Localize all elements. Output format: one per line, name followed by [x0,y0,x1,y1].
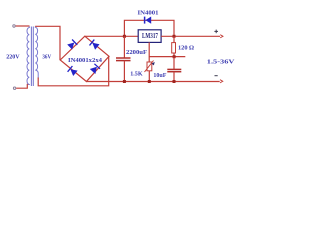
junction node bus C1 riser [123,35,126,38]
svg-text:1.5-36V: 1.5-36V [207,59,235,66]
svg-text:36V: 36V [42,54,51,61]
bridge diode D3 bottom-left [68,66,78,76]
junction node bus pot [148,80,151,83]
capacitor C2 10uF [167,57,181,82]
wire secondary bottom AC to bridge right vertex [38,56,109,86]
svg-text:10uF: 10uF [153,72,166,79]
label plus [214,30,218,34]
wire ADJ pin [148,42,150,62]
svg-text:1.5K: 1.5K [130,70,143,77]
label minus [215,75,218,77]
bridge diode D2 top-right [90,40,100,50]
wire bypass loop [124,20,174,36]
svg-text:2200uF: 2200uF [126,49,147,56]
junction node rail resistor [173,55,176,58]
bridge diode D1 top-left [67,40,77,50]
junction node bus C1 [123,80,126,83]
svg-text:IN4001: IN4001 [138,9,159,16]
bridge diode D4 bottom-right [90,64,100,74]
wire DC+ bus to regulator [85,35,139,37]
junction node bus C2 [173,80,176,83]
junction node output bypass [173,35,176,38]
resistor R1 120ohm [172,36,176,56]
capacitor C1 2200uF [116,36,131,81]
transformer core line right [32,27,34,87]
bridge rectifier diamond [60,36,109,81]
wire primary bottom [16,84,29,88]
svg-text:IN4001x2x4: IN4001x2x4 [68,57,102,64]
transformer T1 primary winding [27,27,29,85]
regulator U1 LM317 box [138,30,161,43]
svg-text:LM317: LM317 [142,32,158,40]
wire primary top [16,25,30,27]
wire regulator output [161,35,220,37]
svg-text:220V: 220V [6,54,20,61]
terminal input top [13,25,15,27]
transformer core line left [30,27,32,87]
svg-text:120 Ω: 120 Ω [178,45,194,52]
diode IN4001 bypass [145,17,152,24]
output arrow plus [220,35,223,38]
transformer T1 secondary winding [35,27,38,79]
wire DC- bottom bus [86,81,219,83]
output arrow minus [220,80,223,83]
potentiometer RP 1.5K [145,61,155,82]
wire ADJ rail [149,56,185,58]
terminal input bottom [13,87,15,89]
wire secondary top to bridge left vertex [35,26,60,60]
